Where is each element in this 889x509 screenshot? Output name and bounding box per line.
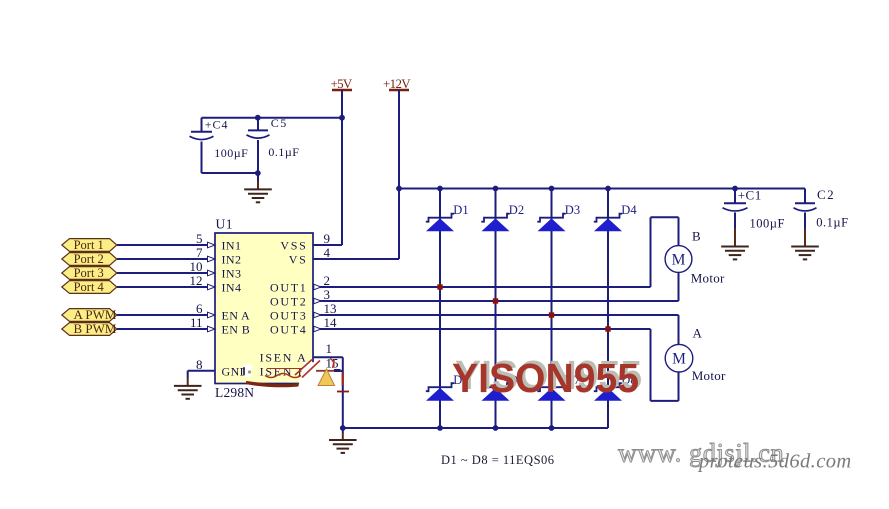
svg-text:3: 3 bbox=[324, 287, 331, 302]
svg-text:A PWM: A PWM bbox=[74, 307, 117, 322]
svg-text:12: 12 bbox=[190, 273, 203, 288]
svg-text:+C1: +C1 bbox=[738, 188, 762, 203]
svg-text:0.1µF: 0.1µF bbox=[268, 145, 299, 159]
svg-text:B: B bbox=[692, 229, 701, 244]
svg-text:M: M bbox=[672, 351, 686, 368]
svg-text:13: 13 bbox=[324, 301, 337, 316]
svg-text:EN A: EN A bbox=[222, 308, 251, 322]
svg-text:2: 2 bbox=[324, 273, 331, 288]
svg-text:0.1µF: 0.1µF bbox=[816, 216, 848, 230]
svg-text:D1 ~ D8 = 11EQS06: D1 ~ D8 = 11EQS06 bbox=[441, 453, 555, 467]
svg-text:Port 4: Port 4 bbox=[74, 280, 105, 294]
svg-text:OUT3: OUT3 bbox=[270, 308, 307, 322]
svg-text:5: 5 bbox=[196, 231, 203, 246]
svg-text:A: A bbox=[693, 326, 703, 341]
svg-text:ISEN A: ISEN A bbox=[260, 351, 308, 365]
svg-text:L298N: L298N bbox=[215, 385, 254, 400]
svg-text:OUT2: OUT2 bbox=[270, 294, 307, 308]
svg-text:11: 11 bbox=[190, 315, 203, 330]
svg-text:Motor: Motor bbox=[691, 271, 725, 286]
svg-text:14: 14 bbox=[324, 315, 338, 330]
svg-text:1: 1 bbox=[326, 341, 333, 356]
svg-text:D3: D3 bbox=[565, 203, 580, 217]
svg-text:IN3: IN3 bbox=[222, 266, 242, 280]
svg-text:Port 2: Port 2 bbox=[74, 252, 104, 266]
svg-text:4: 4 bbox=[324, 245, 331, 260]
svg-text:M: M bbox=[672, 251, 686, 268]
svg-text:7: 7 bbox=[196, 245, 203, 260]
svg-text:YISON955: YISON955 bbox=[452, 355, 639, 401]
svg-text:6: 6 bbox=[196, 301, 203, 316]
svg-text:VS: VS bbox=[289, 252, 308, 266]
svg-text:+12V: +12V bbox=[383, 76, 411, 91]
svg-text:B PWM: B PWM bbox=[74, 321, 117, 336]
svg-text:D4: D4 bbox=[621, 203, 637, 217]
svg-text:IN2: IN2 bbox=[222, 252, 242, 266]
svg-text:D1: D1 bbox=[453, 203, 468, 217]
svg-text:C2: C2 bbox=[817, 187, 835, 202]
svg-text:D2: D2 bbox=[509, 203, 524, 217]
svg-text:C5: C5 bbox=[271, 116, 288, 130]
svg-text:10: 10 bbox=[190, 259, 203, 274]
svg-text:100µF: 100µF bbox=[750, 217, 785, 231]
svg-text:15: 15 bbox=[326, 356, 339, 371]
svg-text:Port 3: Port 3 bbox=[74, 266, 104, 280]
svg-text:IN1: IN1 bbox=[222, 238, 242, 252]
svg-text:+5V: +5V bbox=[330, 76, 352, 91]
svg-text:8: 8 bbox=[196, 357, 203, 372]
svg-text:VSS: VSS bbox=[280, 238, 307, 252]
svg-text:EN B: EN B bbox=[222, 322, 251, 336]
svg-text:U1: U1 bbox=[216, 217, 234, 232]
svg-text:+C4: +C4 bbox=[205, 118, 229, 132]
svg-text:OUT4: OUT4 bbox=[270, 322, 307, 336]
svg-text:proteus.5d6d.com: proteus.5d6d.com bbox=[697, 451, 852, 473]
svg-text:Motor: Motor bbox=[692, 368, 726, 383]
svg-text:OUT1: OUT1 bbox=[270, 280, 307, 294]
svg-text:Port 1: Port 1 bbox=[74, 238, 104, 252]
svg-text:100µF: 100µF bbox=[214, 146, 248, 160]
svg-text:IN4: IN4 bbox=[222, 280, 242, 294]
svg-text:9: 9 bbox=[324, 231, 331, 246]
